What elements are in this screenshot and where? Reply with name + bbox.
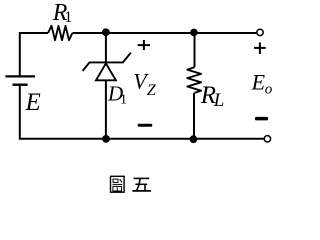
caption character 五 <box>132 178 151 191</box>
svg-text:Z: Z <box>147 82 157 99</box>
wire left vertical lower <box>19 85 21 140</box>
wire zener anode lead <box>105 80 107 139</box>
plus sign right <box>254 42 266 54</box>
resistor RL <box>187 67 201 93</box>
wire zener cathode lead <box>105 33 107 62</box>
plus sign mid <box>138 40 150 50</box>
svg-text:1: 1 <box>120 93 127 108</box>
minus sign mid <box>138 124 153 127</box>
caption character 圖 <box>111 176 125 192</box>
node junction dot bottom-left (zener return) <box>102 135 110 143</box>
minus sign right <box>255 117 268 121</box>
svg-text:E: E <box>25 89 41 116</box>
wire RL bottom lead <box>193 93 195 140</box>
wire left vertical upper <box>19 32 21 76</box>
svg-text:1: 1 <box>64 9 72 26</box>
terminal circle bottom right <box>264 136 270 142</box>
svg-text:o: o <box>265 82 273 98</box>
wire bottom rail <box>20 138 264 140</box>
terminal circle top right <box>257 29 263 35</box>
svg-text:L: L <box>213 90 225 111</box>
node junction dot top-left (zener tap) <box>102 28 110 36</box>
wire RL top lead <box>194 33 196 67</box>
svg-text:E: E <box>251 69 266 94</box>
battery E long plate <box>5 75 35 77</box>
battery E short plate <box>13 83 28 85</box>
node junction dot bottom-right (RL return) <box>190 135 198 143</box>
zener diode D1 cathode bar with bent tails <box>83 53 131 71</box>
node junction dot top-right (RL tap) <box>190 29 198 37</box>
zener diode D1 triangle <box>96 63 116 80</box>
resistor R1 <box>48 26 72 40</box>
wire top rail middle and right <box>72 32 256 34</box>
wire top rail left segment <box>20 32 48 34</box>
